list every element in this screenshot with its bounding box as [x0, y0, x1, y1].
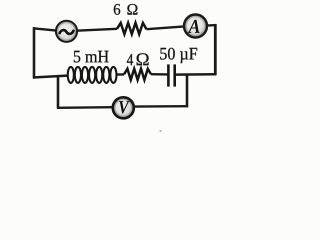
- wire ammeter to top-right corner: [207, 24, 216, 27]
- resistor R1 6ohm zigzag: [117, 23, 147, 34]
- wire right vertical upper: [214, 24, 217, 75]
- wire left vertical: [33, 27, 36, 78]
- label 50 uF: [160, 48, 197, 63]
- wire R1 to ammeter: [147, 26, 185, 29]
- wire left tap vertical: [57, 77, 60, 109]
- capacitor C1 plates: [168, 64, 174, 86]
- wire bottom-right horizontal: [133, 105, 188, 108]
- label 6 ohm: [114, 4, 138, 15]
- inductor L1 coil: [68, 67, 117, 83]
- speck artifact: [160, 130, 162, 132]
- wire middle-left (corner to inductor): [33, 76, 67, 78]
- resistor R2 4ohm zigzag: [124, 69, 151, 80]
- wire capacitor to right vertical: [176, 73, 216, 76]
- ammeter M1: [184, 15, 207, 38]
- wire inductor to R2: [117, 73, 125, 76]
- label 4 ohm: [127, 53, 149, 65]
- ac source G1: [56, 21, 77, 42]
- wire bottom-left horizontal: [57, 106, 114, 109]
- wire top-left horizontal (corner to source): [33, 28, 57, 30]
- wire R2 to capacitor: [151, 73, 168, 76]
- label 5 mH: [74, 51, 109, 63]
- wire right tap vertical: [186, 75, 189, 107]
- voltmeter M2: [113, 97, 134, 118]
- wire source to R1: [77, 29, 118, 31]
